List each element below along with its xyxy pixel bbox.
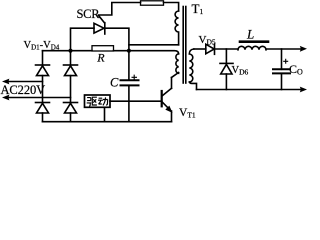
SCR anode wire (71, 28, 95, 51)
transformer T1 primary upper winding (175, 11, 178, 45)
svg-text:C: C (110, 76, 119, 90)
svg-text:VD6: VD6 (232, 65, 249, 76)
SCR gate lead (99, 15, 105, 23)
wire bottom rail (43, 121, 172, 123)
wire to transformer primary top (164, 3, 179, 12)
resistor R (92, 46, 114, 51)
wire output bottom rail (197, 89, 303, 91)
arrow output plus (300, 46, 307, 52)
transformer T1 core (182, 7, 184, 84)
transformer T1 primary lower winding (176, 54, 179, 74)
label plus (Co) (283, 59, 288, 64)
capacitor Co leads (281, 49, 283, 69)
wire gate top feed (99, 3, 141, 16)
arrow AC top (2, 79, 9, 85)
diode V03 (bridge, bottom-left) (36, 103, 50, 122)
diode V01 (bridge, top-left) (36, 51, 50, 103)
diode V02 (bridge, top-right) (64, 51, 78, 103)
capacitor C plates (121, 79, 139, 81)
wire AC input top (7, 81, 43, 83)
resistor (gate series, unlabeled) (141, 1, 164, 5)
inductor L core bar (240, 40, 268, 43)
wire node to primary lower (129, 51, 179, 54)
wire R to node (114, 50, 129, 52)
svg-text:L: L (246, 27, 254, 42)
wire AC input bottom (7, 97, 71, 99)
svg-text:AC220V: AC220V (1, 83, 46, 97)
arrow output minus (300, 87, 307, 93)
wire L to output node (266, 48, 302, 50)
wire drive box to bottom rail (104, 107, 106, 121)
svg-text:T1: T1 (192, 1, 204, 16)
svg-text:SCR: SCR (77, 7, 101, 21)
drive box (85, 95, 111, 107)
junction node R/SCR/C (127, 49, 131, 53)
wire secondary bottom (189, 82, 196, 90)
arrow AC bottom (2, 95, 9, 101)
thyristor SCR (94, 23, 104, 33)
diode V04 (bridge, bottom-right) (64, 103, 78, 122)
wire SCR cathode to node (105, 28, 129, 51)
wire primary upper return (129, 44, 179, 46)
wire primary lower to collector (172, 73, 179, 78)
diode V05 (206, 44, 214, 54)
label plus (C) (132, 75, 138, 80)
drive box text (drawn strokes for CJK "qu dong") (87, 97, 108, 106)
inductor L (238, 46, 266, 49)
svg-text:VD1-VD4: VD1-VD4 (24, 40, 60, 51)
wire secondary top to V05 (194, 48, 206, 50)
capacitor Co plates (273, 68, 290, 70)
svg-text:CO: CO (289, 62, 303, 77)
svg-text:VD5: VD5 (199, 34, 216, 46)
transistor VT1 (162, 78, 172, 122)
wire drive box to base (110, 100, 161, 102)
wire V05 to L (215, 48, 239, 50)
svg-text:R: R (96, 51, 105, 65)
capacitor C leads (128, 51, 130, 80)
junction node bridge top (68, 49, 72, 53)
diode V06 (220, 49, 233, 90)
transformer T1 secondary winding (189, 49, 194, 82)
wire bridge top rail (43, 50, 93, 52)
svg-text:VT1: VT1 (179, 107, 196, 120)
